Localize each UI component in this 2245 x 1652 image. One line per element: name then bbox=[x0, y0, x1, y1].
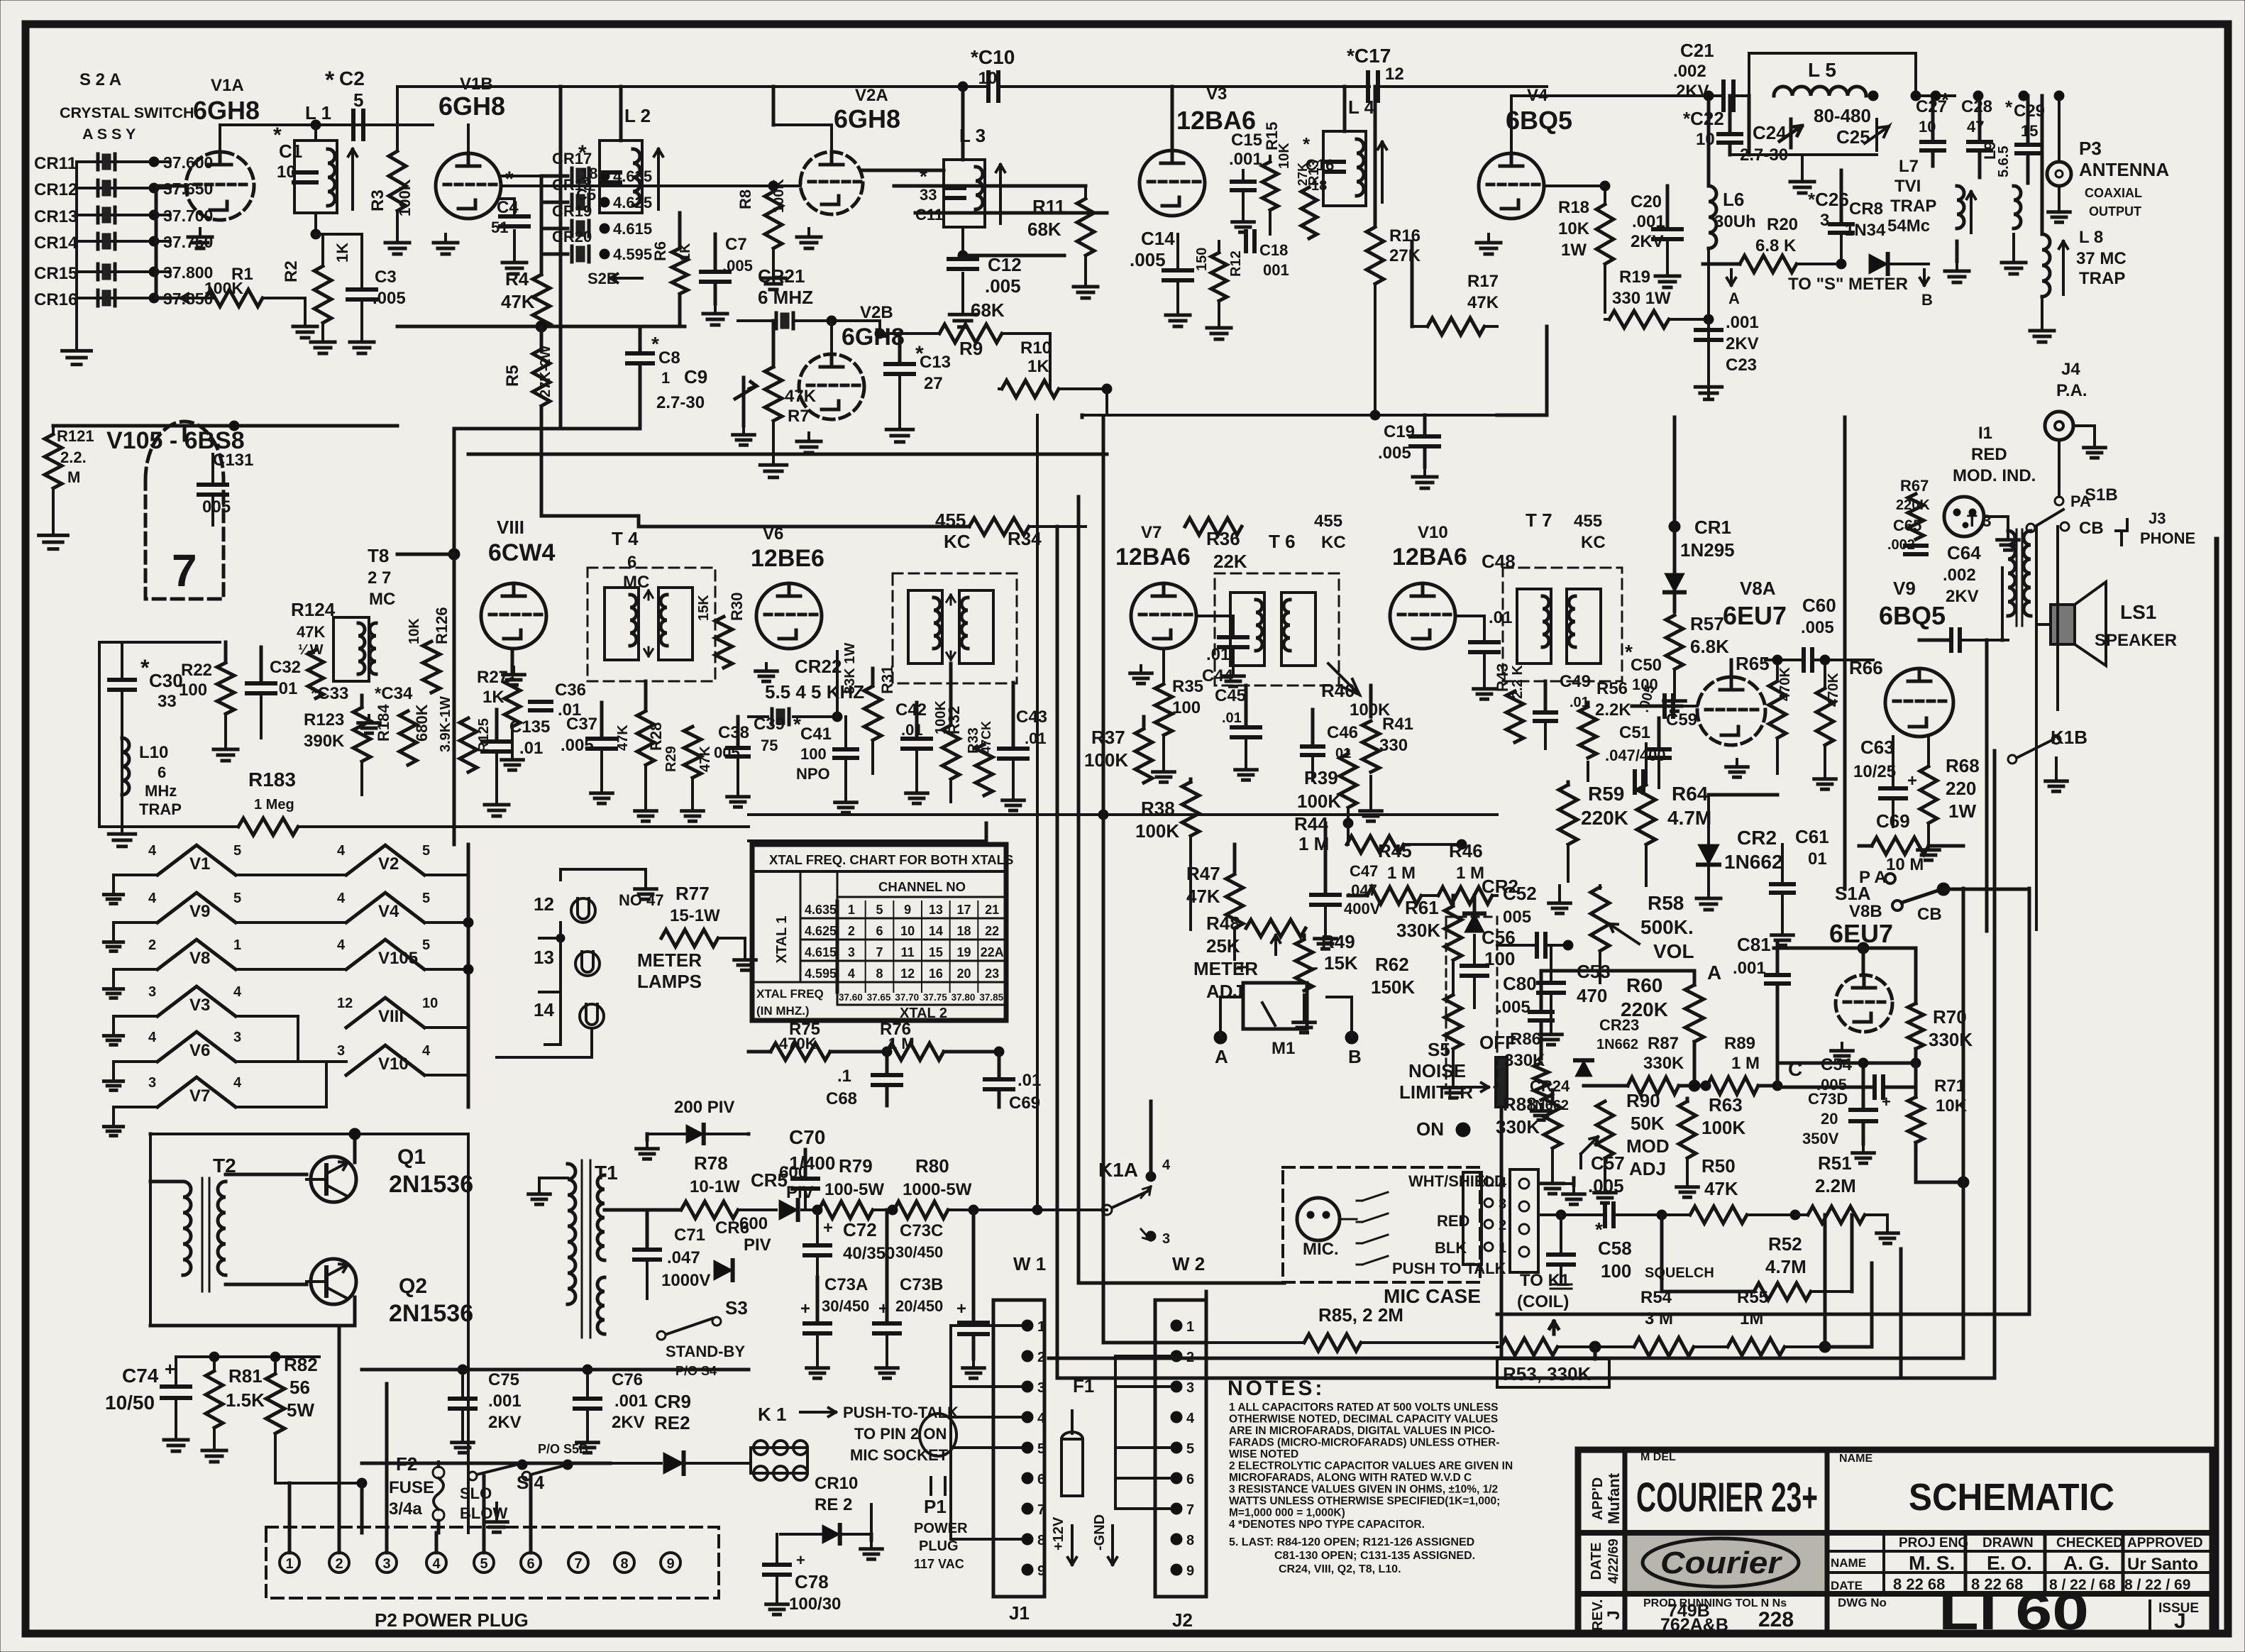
svg-text:(IN MHZ.): (IN MHZ.) bbox=[756, 1004, 810, 1018]
svg-text:6BQ5: 6BQ5 bbox=[1506, 106, 1572, 135]
svg-text:47K: 47K bbox=[615, 725, 631, 751]
svg-text:CR1: CR1 bbox=[1694, 517, 1731, 538]
svg-text:37.80: 37.80 bbox=[951, 992, 976, 1003]
svg-text:005: 005 bbox=[202, 497, 231, 517]
svg-text:C13: C13 bbox=[920, 353, 951, 372]
svg-text:5: 5 bbox=[353, 89, 363, 111]
svg-text:1 M: 1 M bbox=[1731, 1054, 1760, 1073]
svg-text:C131: C131 bbox=[213, 451, 253, 470]
svg-text:NPO: NPO bbox=[796, 765, 830, 783]
svg-text:C63: C63 bbox=[1860, 737, 1894, 758]
svg-text:M: M bbox=[67, 468, 80, 486]
svg-text:1N662: 1N662 bbox=[1596, 1037, 1638, 1052]
svg-text:6CW4: 6CW4 bbox=[488, 539, 556, 566]
svg-text:1: 1 bbox=[1186, 1319, 1194, 1335]
svg-text:2: 2 bbox=[848, 924, 855, 938]
svg-text:2.2K: 2.2K bbox=[1595, 700, 1631, 720]
svg-text:C14: C14 bbox=[1141, 228, 1175, 249]
svg-text:100K: 100K bbox=[1297, 791, 1341, 812]
svg-text:330K: 330K bbox=[1396, 920, 1440, 941]
svg-text:13: 13 bbox=[534, 947, 554, 968]
svg-text:150K: 150K bbox=[1371, 976, 1415, 998]
svg-text:C73D: C73D bbox=[1808, 1090, 1848, 1108]
svg-text:MICROFARADS, ALONG WITH RATED: MICROFARADS, ALONG WITH RATED W.V.D C bbox=[1229, 1472, 1472, 1484]
svg-text:OTHERWISE NOTED, DECIMAL CAPAC: OTHERWISE NOTED, DECIMAL CAPACITY VALUES bbox=[1229, 1414, 1498, 1426]
svg-text:L7: L7 bbox=[1899, 157, 1919, 176]
svg-text:V6: V6 bbox=[189, 1041, 210, 1060]
svg-text:R90: R90 bbox=[1626, 1090, 1660, 1111]
svg-text:6: 6 bbox=[1037, 1472, 1045, 1487]
svg-text:V4: V4 bbox=[378, 902, 399, 921]
svg-text:68K: 68K bbox=[971, 299, 1005, 321]
svg-text:P2 POWER PLUG: P2 POWER PLUG bbox=[375, 1609, 529, 1631]
svg-text:SLO: SLO bbox=[460, 1485, 492, 1502]
svg-text:1.5K: 1.5K bbox=[226, 1389, 265, 1411]
svg-text:5: 5 bbox=[480, 1556, 487, 1572]
svg-text:CR14: CR14 bbox=[34, 233, 78, 253]
svg-text:MOD. IND.: MOD. IND. bbox=[1953, 466, 2036, 485]
svg-text:P3: P3 bbox=[2079, 138, 2102, 159]
svg-text:R8: R8 bbox=[737, 189, 754, 209]
svg-text:CR24, VIII, Q2, T8, L10.: CR24, VIII, Q2, T8, L10. bbox=[1279, 1563, 1401, 1575]
svg-text:J: J bbox=[2174, 1609, 2186, 1633]
svg-text:LS1: LS1 bbox=[2120, 601, 2156, 623]
svg-text:13: 13 bbox=[929, 903, 943, 917]
svg-text:C69: C69 bbox=[1876, 810, 1910, 832]
svg-text:R47: R47 bbox=[1186, 863, 1220, 884]
svg-text:1M: 1M bbox=[1740, 1309, 1763, 1328]
svg-text:2KV: 2KV bbox=[612, 1413, 645, 1432]
svg-text:8 22 68: 8 22 68 bbox=[1893, 1575, 1945, 1593]
svg-text:4.635: 4.635 bbox=[805, 903, 837, 917]
svg-text:C32: C32 bbox=[270, 658, 301, 677]
svg-text:4.615: 4.615 bbox=[613, 220, 652, 238]
svg-text:PROJ ENG: PROJ ENG bbox=[1899, 1536, 1968, 1551]
svg-text:4.7M: 4.7M bbox=[1667, 807, 1711, 829]
svg-text:R67: R67 bbox=[1900, 477, 1929, 495]
svg-text:4 *DENOTES NPO TYPE CAPACITOR: 4 *DENOTES NPO TYPE CAPACITOR. bbox=[1229, 1519, 1425, 1531]
svg-text:33: 33 bbox=[158, 692, 177, 711]
svg-text:6GH8: 6GH8 bbox=[834, 104, 900, 133]
svg-text:C52: C52 bbox=[1503, 883, 1537, 904]
svg-text:6: 6 bbox=[876, 924, 883, 938]
svg-text:Courier: Courier bbox=[1660, 1546, 1783, 1580]
svg-text:100K: 100K bbox=[1084, 749, 1128, 771]
svg-text:C51: C51 bbox=[1619, 723, 1650, 742]
svg-text:18: 18 bbox=[1311, 178, 1327, 194]
svg-text:METER: METER bbox=[1193, 958, 1258, 979]
svg-text:*C17: *C17 bbox=[1347, 45, 1391, 67]
svg-text:+12V: +12V bbox=[1051, 1516, 1066, 1551]
svg-text:100K: 100K bbox=[1135, 820, 1179, 842]
svg-text:J1: J1 bbox=[1009, 1602, 1030, 1624]
svg-text:TO K1: TO K1 bbox=[1520, 1271, 1570, 1290]
svg-text:22: 22 bbox=[985, 924, 999, 938]
svg-text:3: 3 bbox=[1820, 211, 1829, 230]
svg-text:3/4a: 3/4a bbox=[389, 1499, 422, 1519]
svg-text:Ur Santo: Ur Santo bbox=[2127, 1555, 2198, 1574]
svg-text:2KV: 2KV bbox=[1946, 587, 1979, 606]
svg-text:400V: 400V bbox=[1344, 900, 1381, 918]
svg-text:R44: R44 bbox=[1294, 813, 1328, 835]
svg-text:+: + bbox=[165, 1358, 175, 1380]
svg-text:NAME: NAME bbox=[1839, 1453, 1872, 1465]
svg-text:V3: V3 bbox=[189, 996, 210, 1015]
svg-text:7: 7 bbox=[876, 945, 883, 959]
svg-text:R61: R61 bbox=[1405, 897, 1439, 918]
svg-text:5: 5 bbox=[876, 903, 883, 917]
svg-text:37.600: 37.600 bbox=[163, 153, 213, 172]
svg-text:*C22: *C22 bbox=[1683, 108, 1724, 129]
svg-text:18: 18 bbox=[956, 924, 971, 938]
svg-text:MOD: MOD bbox=[1626, 1135, 1670, 1157]
svg-text:4.595: 4.595 bbox=[613, 246, 652, 263]
svg-text:C5: C5 bbox=[576, 186, 596, 204]
svg-text:9: 9 bbox=[1186, 1563, 1194, 1579]
svg-text:4: 4 bbox=[1037, 1411, 1046, 1426]
svg-text:RED: RED bbox=[1437, 1212, 1469, 1230]
svg-text:R126: R126 bbox=[433, 607, 451, 644]
svg-text:M1: M1 bbox=[1272, 1039, 1295, 1058]
svg-text:R11: R11 bbox=[1032, 196, 1065, 217]
svg-text:T 4: T 4 bbox=[612, 528, 639, 549]
svg-text:MC: MC bbox=[369, 590, 395, 609]
svg-text:R32: R32 bbox=[945, 706, 963, 734]
svg-text:54Mc: 54Mc bbox=[1887, 216, 1930, 236]
svg-text:C39: C39 bbox=[754, 715, 785, 734]
svg-text:1 M: 1 M bbox=[1387, 864, 1416, 883]
svg-text:CR24: CR24 bbox=[1530, 1077, 1570, 1095]
svg-text:TVI: TVI bbox=[1894, 177, 1921, 196]
svg-text:.005: .005 bbox=[1801, 618, 1834, 637]
svg-text:330K: 330K bbox=[1929, 1029, 1973, 1050]
svg-text:228: 228 bbox=[1758, 1608, 1794, 1631]
svg-text:V2B: V2B bbox=[860, 303, 893, 322]
svg-text:1K: 1K bbox=[1027, 357, 1049, 376]
svg-text:51: 51 bbox=[491, 219, 508, 236]
svg-text:68K: 68K bbox=[1027, 219, 1061, 240]
svg-text:R51: R51 bbox=[1818, 1152, 1852, 1174]
svg-text:CR11: CR11 bbox=[34, 154, 77, 173]
svg-text:SQUELCH: SQUELCH bbox=[1645, 1265, 1714, 1281]
svg-text:TRAP: TRAP bbox=[139, 800, 182, 818]
svg-text:47K: 47K bbox=[297, 623, 325, 641]
svg-text:6: 6 bbox=[526, 1556, 534, 1572]
svg-text:K1B: K1B bbox=[2051, 727, 2087, 748]
svg-text:762A&B: 762A&B bbox=[1660, 1615, 1728, 1635]
svg-text:C37: C37 bbox=[566, 715, 597, 734]
svg-text:+: + bbox=[1236, 956, 1247, 978]
svg-text:4: 4 bbox=[432, 1556, 441, 1572]
svg-text:CR15: CR15 bbox=[34, 264, 77, 283]
svg-text:S1B: S1B bbox=[2085, 485, 2118, 505]
svg-text:C58: C58 bbox=[1598, 1238, 1632, 1259]
svg-text:V10: V10 bbox=[378, 1054, 409, 1074]
svg-text:37.85: 37.85 bbox=[979, 992, 1003, 1003]
svg-text:33: 33 bbox=[920, 186, 937, 204]
svg-text:12BA6: 12BA6 bbox=[1392, 544, 1467, 571]
svg-text:.005: .005 bbox=[1130, 249, 1166, 270]
svg-text:*: * bbox=[505, 167, 514, 191]
svg-text:10/25: 10/25 bbox=[1853, 762, 1896, 781]
svg-text:(COIL): (COIL) bbox=[1517, 1292, 1569, 1311]
svg-text:C72: C72 bbox=[843, 1219, 877, 1240]
svg-text:R58: R58 bbox=[1648, 892, 1684, 914]
svg-text:COAXIAL: COAXIAL bbox=[2085, 186, 2142, 200]
svg-text:CR8: CR8 bbox=[1849, 199, 1883, 219]
svg-text:*: * bbox=[578, 141, 587, 165]
svg-text:PUSH TO TALK: PUSH TO TALK bbox=[1392, 1260, 1506, 1277]
svg-text:10 M: 10 M bbox=[1886, 855, 1924, 874]
svg-text:R39: R39 bbox=[1304, 767, 1338, 788]
svg-text:C45: C45 bbox=[1215, 686, 1246, 705]
svg-text:*: * bbox=[2005, 97, 2013, 118]
svg-text:V9: V9 bbox=[189, 902, 210, 921]
svg-text:R19: R19 bbox=[1619, 268, 1650, 287]
svg-text:C61: C61 bbox=[1795, 826, 1829, 847]
svg-text:C36: C36 bbox=[555, 681, 586, 700]
svg-text:10: 10 bbox=[900, 924, 915, 938]
svg-text:R55: R55 bbox=[1737, 1288, 1768, 1307]
svg-text:R37: R37 bbox=[1091, 727, 1125, 748]
svg-text:-GND: -GND bbox=[1092, 1514, 1108, 1551]
svg-text:CR12: CR12 bbox=[34, 180, 77, 199]
svg-text:1N295: 1N295 bbox=[1680, 539, 1735, 561]
svg-text:A: A bbox=[1728, 290, 1740, 307]
svg-text:KC: KC bbox=[1321, 533, 1346, 552]
svg-text:10: 10 bbox=[422, 996, 438, 1011]
svg-text:2: 2 bbox=[1037, 1350, 1045, 1365]
svg-text:R5: R5 bbox=[503, 365, 522, 387]
svg-text:V1B: V1B bbox=[460, 75, 493, 94]
svg-text:R46: R46 bbox=[1449, 840, 1483, 861]
svg-text:500K.: 500K. bbox=[1640, 916, 1694, 938]
svg-text:R41: R41 bbox=[1382, 715, 1413, 734]
svg-text:R87: R87 bbox=[1648, 1034, 1679, 1053]
svg-text:3: 3 bbox=[337, 1043, 345, 1059]
svg-text:V1A: V1A bbox=[211, 76, 244, 95]
svg-text:220: 220 bbox=[1946, 778, 1976, 799]
svg-text:Mufant: Mufant bbox=[1605, 1472, 1623, 1524]
svg-text:30Uh: 30Uh bbox=[1714, 212, 1756, 231]
svg-text:25K: 25K bbox=[1206, 935, 1240, 957]
svg-text:10: 10 bbox=[978, 69, 998, 88]
svg-text:L 2: L 2 bbox=[624, 105, 651, 126]
svg-text:C64: C64 bbox=[1947, 542, 1981, 563]
svg-text:J4: J4 bbox=[2061, 360, 2080, 379]
svg-text:J2: J2 bbox=[1172, 1609, 1193, 1631]
svg-text:C8: C8 bbox=[658, 348, 680, 368]
svg-text:330K: 330K bbox=[1496, 1116, 1540, 1138]
svg-text:100-5W: 100-5W bbox=[824, 1180, 884, 1199]
svg-text:R50: R50 bbox=[1701, 1155, 1736, 1177]
svg-text:COURIER 23+: COURIER 23+ bbox=[1636, 1475, 1818, 1521]
svg-text:M=1,000 000 = 1,000K): M=1,000 000 = 1,000K) bbox=[1229, 1507, 1345, 1519]
svg-text:1K: 1K bbox=[482, 688, 504, 707]
svg-text:B: B bbox=[1921, 291, 1933, 309]
svg-text:TO PIN 2 ON: TO PIN 2 ON bbox=[854, 1425, 947, 1443]
svg-text:15-1W: 15-1W bbox=[670, 906, 720, 925]
svg-text:+: + bbox=[796, 1551, 805, 1569]
svg-text:4: 4 bbox=[148, 843, 157, 859]
svg-text:R7: R7 bbox=[788, 407, 810, 426]
svg-text:CR19: CR19 bbox=[552, 202, 592, 220]
svg-text:C60: C60 bbox=[1802, 595, 1836, 616]
svg-text:6GH8: 6GH8 bbox=[438, 92, 505, 121]
svg-text:47K: 47K bbox=[1467, 293, 1499, 312]
svg-text:117 VAC: 117 VAC bbox=[914, 1557, 964, 1571]
svg-text:12: 12 bbox=[534, 893, 554, 915]
svg-text:19: 19 bbox=[956, 945, 971, 959]
svg-text:4.625: 4.625 bbox=[805, 924, 837, 938]
svg-text:C47: C47 bbox=[1350, 862, 1378, 880]
svg-text:C59: C59 bbox=[1666, 710, 1697, 729]
svg-text:R54: R54 bbox=[1640, 1288, 1672, 1307]
svg-text:18: 18 bbox=[580, 165, 597, 182]
svg-text:4: 4 bbox=[148, 1030, 157, 1045]
svg-text:MIC SOCKET: MIC SOCKET bbox=[850, 1446, 949, 1464]
svg-text:RE2: RE2 bbox=[654, 1412, 690, 1433]
svg-text:R86: R86 bbox=[1510, 1030, 1541, 1049]
svg-text:350V: 350V bbox=[1802, 1130, 1839, 1147]
svg-text:.001: .001 bbox=[614, 1392, 648, 1411]
svg-text:.01: .01 bbox=[274, 679, 297, 698]
svg-text:XTAL FREQ: XTAL FREQ bbox=[756, 987, 824, 1001]
svg-text:C3: C3 bbox=[375, 268, 397, 287]
svg-text:10: 10 bbox=[1696, 130, 1715, 149]
svg-text:A: A bbox=[1707, 962, 1721, 984]
svg-text:XTAL 2: XTAL 2 bbox=[900, 1006, 947, 1021]
svg-text:C15: C15 bbox=[1231, 131, 1262, 150]
svg-text:4: 4 bbox=[233, 984, 242, 1000]
svg-text:F2: F2 bbox=[396, 1453, 417, 1475]
svg-text:3: 3 bbox=[1037, 1380, 1045, 1396]
svg-text:C42: C42 bbox=[895, 700, 927, 720]
svg-text:CHECKED: CHECKED bbox=[2056, 1536, 2123, 1551]
svg-text:6 MHZ: 6 MHZ bbox=[758, 287, 813, 308]
svg-text:S 2 A: S 2 A bbox=[79, 70, 121, 89]
svg-text:C71: C71 bbox=[674, 1226, 705, 1245]
svg-text:RED: RED bbox=[1971, 445, 2007, 464]
svg-text:CHANNEL NO: CHANNEL NO bbox=[878, 879, 966, 894]
svg-text:+: + bbox=[1907, 771, 1917, 791]
svg-text:12: 12 bbox=[900, 967, 915, 981]
svg-text:R78: R78 bbox=[694, 1152, 728, 1174]
svg-text:330: 330 bbox=[1379, 736, 1408, 755]
svg-text:100K: 100K bbox=[1701, 1117, 1745, 1138]
svg-text:C21: C21 bbox=[1680, 40, 1714, 61]
svg-text:ANTENNA: ANTENNA bbox=[2079, 159, 2169, 180]
svg-text:9: 9 bbox=[1037, 1563, 1045, 1579]
svg-text:R9: R9 bbox=[959, 338, 983, 359]
svg-text:47CK: 47CK bbox=[979, 721, 993, 754]
svg-text:C49: C49 bbox=[1560, 672, 1591, 691]
svg-text:VIII: VIII bbox=[378, 1007, 404, 1026]
svg-text:C74: C74 bbox=[122, 1365, 159, 1387]
svg-text:C50: C50 bbox=[1631, 656, 1662, 675]
svg-text:V105: V105 bbox=[378, 949, 418, 968]
svg-text:4: 4 bbox=[337, 937, 346, 953]
svg-text:3.9K-1W: 3.9K-1W bbox=[438, 696, 453, 752]
svg-text:XTAL 1: XTAL 1 bbox=[774, 915, 790, 963]
svg-text:5: 5 bbox=[233, 891, 241, 906]
svg-text:7: 7 bbox=[1037, 1502, 1045, 1518]
svg-text:3: 3 bbox=[1186, 1380, 1194, 1396]
svg-text:WHT/SHIELD: WHT/SHIELD bbox=[1408, 1172, 1506, 1190]
svg-text:DATE: DATE bbox=[1831, 1579, 1863, 1592]
svg-text:A S S Y: A S S Y bbox=[82, 126, 136, 143]
svg-text:455: 455 bbox=[1574, 512, 1602, 531]
svg-text:.001: .001 bbox=[1733, 959, 1766, 978]
svg-text:100: 100 bbox=[800, 745, 827, 763]
svg-text:R27: R27 bbox=[477, 668, 508, 687]
svg-text:100: 100 bbox=[1601, 1260, 1631, 1282]
svg-text:ADJ: ADJ bbox=[1629, 1158, 1666, 1179]
svg-text:L6: L6 bbox=[1723, 189, 1744, 210]
svg-text:R38: R38 bbox=[1141, 798, 1175, 819]
svg-text:R64: R64 bbox=[1672, 783, 1709, 805]
svg-text:4.615: 4.615 bbox=[805, 945, 837, 959]
svg-text:LI 60: LI 60 bbox=[1938, 1584, 2089, 1641]
svg-text:6BQ5: 6BQ5 bbox=[1879, 601, 1946, 630]
svg-text:R4: R4 bbox=[505, 268, 529, 290]
svg-text:C23: C23 bbox=[1726, 356, 1757, 375]
svg-text:30/450: 30/450 bbox=[895, 1243, 943, 1261]
svg-text:390K: 390K bbox=[304, 732, 345, 751]
svg-text:TRAP: TRAP bbox=[1890, 197, 1936, 216]
svg-text:600: 600 bbox=[739, 1214, 768, 1233]
svg-text:R31: R31 bbox=[878, 666, 896, 694]
svg-text:17: 17 bbox=[956, 903, 971, 917]
svg-text:27K: 27K bbox=[1389, 246, 1421, 265]
svg-text:4: 4 bbox=[422, 1043, 431, 1059]
svg-text:4: 4 bbox=[1186, 1411, 1195, 1426]
svg-text:3: 3 bbox=[848, 945, 855, 959]
svg-text:T8: T8 bbox=[368, 545, 389, 566]
svg-text:CRYSTAL SWITCH: CRYSTAL SWITCH bbox=[60, 104, 194, 121]
svg-text:R12: R12 bbox=[1228, 250, 1244, 277]
svg-text:14: 14 bbox=[929, 924, 943, 938]
svg-text:R56: R56 bbox=[1596, 679, 1628, 698]
svg-text:27K-2W: 27K-2W bbox=[538, 346, 553, 397]
svg-text:6: 6 bbox=[158, 764, 166, 781]
svg-text:R183: R183 bbox=[248, 769, 296, 791]
svg-text:DWG No: DWG No bbox=[1838, 1596, 1887, 1609]
svg-text:21: 21 bbox=[985, 903, 999, 917]
svg-text:FARADS (MICRO-MICROFARADS) UNL: FARADS (MICRO-MICROFARADS) UNLESS OTHER- bbox=[1229, 1437, 1499, 1449]
svg-text:5: 5 bbox=[1037, 1441, 1045, 1457]
svg-text:R81: R81 bbox=[228, 1365, 263, 1387]
svg-text:P/O S5B: P/O S5B bbox=[538, 1442, 588, 1456]
svg-text:200 PIV: 200 PIV bbox=[674, 1098, 734, 1117]
svg-text:V1: V1 bbox=[189, 854, 210, 874]
svg-text:V8B: V8B bbox=[1849, 902, 1882, 921]
svg-text:R77: R77 bbox=[675, 883, 710, 904]
svg-text:4.625: 4.625 bbox=[613, 194, 652, 211]
svg-text:STAND-BY: STAND-BY bbox=[666, 1343, 745, 1360]
svg-text:REV.: REV. bbox=[1590, 1599, 1606, 1631]
svg-text:C30: C30 bbox=[149, 670, 183, 691]
svg-text:R53, 330K: R53, 330K bbox=[1503, 1363, 1592, 1384]
svg-text:CR20: CR20 bbox=[552, 228, 592, 246]
svg-text:1K: 1K bbox=[678, 243, 693, 261]
svg-text:12: 12 bbox=[1385, 65, 1404, 84]
svg-text:3 M: 3 M bbox=[1645, 1309, 1673, 1328]
svg-text:C75: C75 bbox=[488, 1370, 519, 1389]
svg-text:2.7-30: 2.7-30 bbox=[656, 393, 705, 412]
svg-text:C73A: C73A bbox=[824, 1275, 868, 1294]
svg-text:R121: R121 bbox=[57, 427, 94, 445]
